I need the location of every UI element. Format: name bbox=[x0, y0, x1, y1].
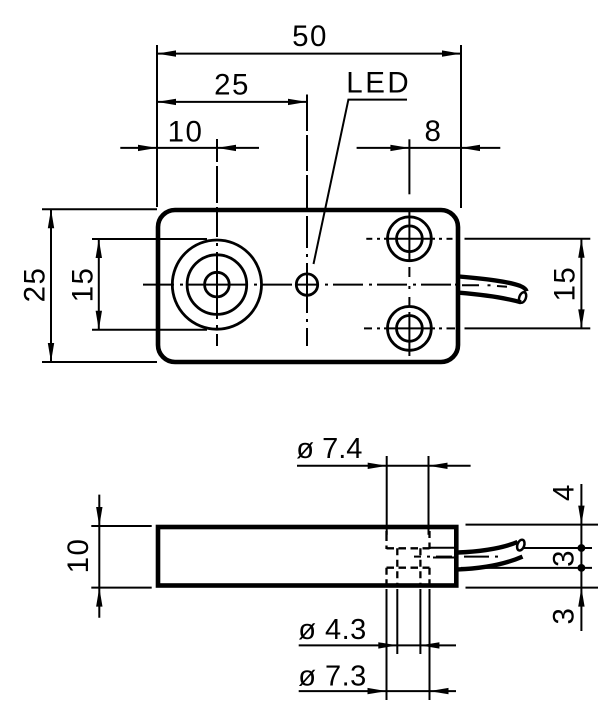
hidden hole d7.4 bottom bbox=[387, 547, 430, 549]
arrow 15r bottom bbox=[578, 309, 584, 328]
dimension line 3 middle bbox=[580, 525, 582, 588]
arrow 4 bbox=[578, 506, 584, 525]
mounting hole top outer (d7.3) bbox=[388, 217, 432, 261]
extension line d7.3 right bbox=[429, 589, 431, 700]
dimension line d4.3 bbox=[299, 644, 456, 646]
extension line left (x=157) bbox=[156, 45, 158, 207]
mounting hole bottom inner (d4.3) bbox=[397, 316, 423, 342]
svg-text:8: 8 bbox=[425, 115, 443, 148]
arrow 3 bottom bbox=[578, 588, 584, 607]
extension line bottom (y=362) bbox=[42, 361, 157, 363]
arrow 25v top bbox=[48, 209, 54, 228]
extension line body top right (y=524.6) bbox=[466, 524, 599, 526]
hidden hole d7.4 left edge bbox=[385, 531, 387, 534]
cable exit side view bbox=[458, 542, 518, 553]
extension line d7.3 left bbox=[386, 589, 388, 700]
side view body outline (50x10) bbox=[158, 527, 456, 586]
dimension line 3 bottom bbox=[580, 588, 582, 631]
arrow d7.3 right bbox=[430, 688, 449, 694]
arrow d7.4 left bbox=[368, 463, 387, 469]
dimension line 15 right bbox=[580, 239, 582, 329]
extension line upper hole (y=238.8) bbox=[465, 238, 591, 240]
arrow 50 right bbox=[442, 50, 461, 56]
extension line cable top (y=548) bbox=[524, 547, 592, 549]
arrow d7.3 left bbox=[368, 688, 387, 694]
vertical centreline through mounting holes / ext line dim 8 bbox=[408, 139, 410, 194]
hidden hole d7.3 left edge bbox=[385, 568, 387, 586]
hidden hole d7.3 top bbox=[387, 567, 430, 569]
dimension line 8 bbox=[357, 147, 501, 149]
cable centreline side view bbox=[414, 556, 421, 558]
svg-text:3: 3 bbox=[547, 607, 580, 625]
svg-text:ø 7.3: ø 7.3 bbox=[298, 660, 367, 692]
mounting hole bottom outer (d7.3) bbox=[388, 307, 432, 351]
arrow 8 left bbox=[390, 145, 409, 151]
main horizontal centreline of top view bbox=[143, 284, 174, 286]
dot terminator upper bbox=[578, 544, 586, 552]
svg-text:25: 25 bbox=[214, 68, 250, 101]
vertical centreline through sensing circle / ext line dim 10 bbox=[216, 139, 218, 162]
svg-text:10: 10 bbox=[168, 115, 204, 148]
extension line d7.4 left bbox=[386, 456, 388, 535]
extension line body bottom right (y=587.6) bbox=[466, 587, 599, 589]
arrow 10 left bbox=[138, 145, 157, 151]
extension line cable bottom (y=567.9) bbox=[461, 567, 592, 569]
dimension line d7.4 bbox=[297, 465, 471, 467]
extension line right (x=461) bbox=[460, 45, 462, 208]
vertical centreline through LED / ext line dim 25 bbox=[306, 95, 308, 132]
svg-text:15: 15 bbox=[549, 266, 582, 302]
sensing face circle middle bbox=[187, 255, 247, 315]
cable inside body lower line bbox=[433, 557, 456, 559]
arrow 10s bottom bbox=[96, 588, 102, 607]
arrow 25 right bbox=[288, 99, 307, 105]
arrow 8 right bbox=[461, 145, 480, 151]
extension line d4.3 right bbox=[419, 589, 421, 654]
hidden hole d4.3 left edge bbox=[396, 548, 398, 585]
arrow 10s top bbox=[96, 507, 102, 526]
dimension line 4 bbox=[580, 484, 582, 525]
extension line d4.3 left bbox=[396, 589, 398, 654]
dot terminator lower bbox=[578, 564, 586, 572]
arrow d4.3 left bbox=[378, 642, 397, 648]
svg-text:ø 4.3: ø 4.3 bbox=[298, 614, 367, 646]
svg-text:50: 50 bbox=[292, 20, 328, 53]
arrow d4.3 right bbox=[420, 642, 439, 648]
cable exit top view bbox=[459, 277, 527, 292]
arrow 15r top bbox=[578, 239, 584, 258]
arrow 25 left bbox=[157, 99, 176, 105]
mounting hole top inner (d4.3) bbox=[397, 226, 423, 252]
extension line top (y=209.2) bbox=[42, 208, 157, 210]
hidden hole d4.3 right edge bbox=[419, 548, 421, 585]
dimension line 15 left bbox=[98, 239, 100, 330]
extension line d7.4 right bbox=[428, 456, 430, 535]
dimension line 25 vertical bbox=[50, 209, 52, 362]
dimension line 50 bbox=[157, 53, 461, 55]
extension line circle top (y=239) bbox=[92, 238, 207, 240]
dimension line 25 bbox=[157, 101, 307, 103]
arrow 15l bottom bbox=[96, 311, 102, 330]
top view sensor body outline (50x25) bbox=[158, 210, 458, 362]
cable centreline top view bbox=[462, 284, 479, 286]
LED circle bbox=[296, 274, 317, 295]
dimension line 10 side bbox=[98, 495, 100, 618]
LED leader line bbox=[314, 100, 408, 264]
arrow 25v bottom bbox=[48, 343, 54, 362]
sensing face circle inner bbox=[205, 272, 230, 297]
svg-text:LED: LED bbox=[346, 67, 411, 100]
extension line circle bottom (y=329.8) bbox=[92, 329, 207, 331]
svg-text:15: 15 bbox=[67, 267, 100, 303]
extension line lower hole (y=328.4) bbox=[465, 327, 591, 329]
arrow 10 right bbox=[217, 145, 236, 151]
dimension line d7.3 bbox=[299, 690, 456, 692]
svg-text:10: 10 bbox=[62, 538, 95, 574]
hidden hole d7.4 right edge bbox=[428, 531, 430, 549]
svg-text:4: 4 bbox=[547, 483, 580, 501]
dimension line 10 bbox=[120, 147, 259, 149]
sensing face circle outer (d15) bbox=[172, 240, 261, 329]
svg-text:ø 7.4: ø 7.4 bbox=[296, 433, 362, 465]
svg-text:3: 3 bbox=[547, 549, 580, 567]
svg-text:25: 25 bbox=[18, 267, 51, 303]
horizontal centreline upper mounting hole bbox=[366, 238, 372, 240]
hidden hole d7.3 right edge bbox=[428, 568, 430, 586]
extension line side bottom (y=587.6) bbox=[91, 587, 151, 589]
horizontal centreline lower mounting hole bbox=[364, 327, 372, 329]
extension line side top (y=526) bbox=[91, 525, 151, 527]
arrow 50 left bbox=[157, 50, 176, 56]
cable inside body upper line bbox=[430, 547, 456, 549]
arrow 15l top bbox=[96, 239, 102, 258]
arrow d7.4 right bbox=[429, 463, 448, 469]
